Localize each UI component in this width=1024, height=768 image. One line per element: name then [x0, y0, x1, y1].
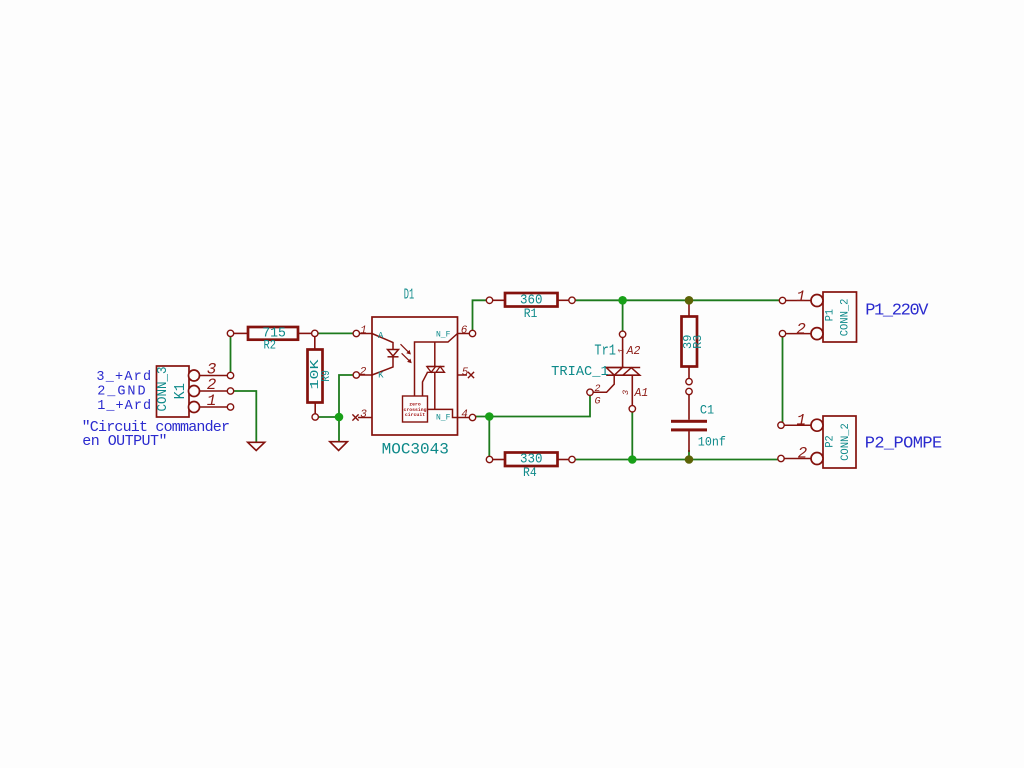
svg-text:G: G: [594, 397, 600, 408]
wire junction to ground 2: [338, 417, 340, 442]
ground GND1: [248, 442, 265, 450]
svg-text:CONN_2: CONN_2: [840, 423, 852, 461]
wire junction down to R4 left: [488, 417, 490, 460]
svg-text:N_F: N_F: [436, 331, 451, 340]
wire R9 bottom to junction: [316, 416, 340, 418]
pin end circles R4: [486, 456, 492, 462]
no-connect X pin3: [352, 414, 358, 420]
pin 3: [358, 417, 372, 419]
svg-text:1: 1: [617, 348, 627, 353]
resistor R4: [492, 452, 570, 481]
pin end circles R1: [486, 297, 492, 303]
svg-text:A2: A2: [626, 345, 641, 358]
svg-text:C1: C1: [700, 402, 714, 417]
resistor R2: [233, 326, 312, 353]
svg-text:P1_220V: P1_220V: [865, 302, 929, 321]
resistor R3: [681, 302, 705, 379]
wire top rail R1 to P1 pin1: [572, 299, 783, 301]
junction rail/R3 top: [685, 296, 694, 305]
wire P1 pin2 to P2 pin1: [782, 334, 784, 425]
svg-text:K: K: [378, 370, 384, 380]
pin end circle triac A2: [619, 331, 625, 337]
wire K1 pin2 to ground: [231, 391, 257, 442]
junction A1 / bottom rail: [628, 455, 637, 464]
inner triac: [427, 366, 445, 368]
pin 1: [359, 333, 372, 335]
no-connect X pin5: [468, 372, 474, 378]
pin end circle R3 bottom: [686, 378, 692, 384]
pin 6: [458, 333, 471, 335]
svg-text:R1: R1: [524, 306, 538, 321]
svg-text:1: 1: [796, 288, 806, 306]
svg-text:R3: R3: [691, 335, 705, 349]
wire K1 pin3 to R2 left: [230, 336, 232, 376]
svg-text:R9: R9: [319, 370, 333, 381]
LED inside D1: [372, 334, 393, 350]
wire R2 right to D1 pin1: [315, 332, 357, 334]
path to pin 4: [428, 409, 458, 417]
svg-text:D1: D1: [404, 287, 414, 304]
svg-text:Tr1: Tr1: [594, 342, 616, 359]
pin end circle R2 right / R9 top: [312, 330, 318, 336]
connector K1 CONN_3: [155, 361, 227, 418]
pin end circle R2 left: [227, 330, 233, 336]
ground GND2: [330, 442, 348, 451]
svg-text:R4: R4: [523, 465, 537, 480]
pin end circle triac G: [587, 389, 593, 395]
svg-text:10nf: 10nf: [698, 434, 726, 449]
resistor R9: [308, 335, 334, 416]
pin end circles P1: [779, 297, 785, 303]
pin 4: [458, 417, 471, 419]
svg-text:3: 3: [621, 390, 631, 395]
inner wiring: [415, 334, 458, 397]
svg-text:CONN_3: CONN_3: [155, 367, 171, 412]
connector P1 CONN_2: [785, 288, 857, 342]
wire rail down to triac A2: [622, 300, 624, 334]
junction R9 bottom / D1 pin2 / gnd: [335, 413, 344, 422]
svg-text:CONN_2: CONN_2: [840, 299, 852, 337]
svg-text:2: 2: [798, 445, 808, 463]
svg-text:P2: P2: [825, 435, 837, 447]
pin end circle C1 top: [686, 388, 692, 394]
capacitor C1: [671, 395, 726, 453]
zero crossing circuit box: [403, 396, 428, 422]
svg-text:A: A: [378, 331, 384, 341]
svg-text:MOC3043: MOC3043: [382, 440, 449, 458]
svg-text:en OUTPUT": en OUTPUT": [82, 433, 167, 450]
svg-text:4: 4: [461, 409, 468, 421]
svg-text:K1: K1: [172, 383, 189, 399]
svg-text:6: 6: [461, 325, 468, 337]
junction D1 pin4 / gate / R4: [485, 412, 494, 421]
svg-text:2: 2: [360, 366, 367, 378]
pin end circle D1 pin2: [353, 372, 359, 378]
svg-text:P1: P1: [825, 309, 837, 322]
pin 2: [359, 374, 372, 376]
resistor R1: [492, 293, 570, 322]
wire triac gate to D1 pin4: [473, 395, 591, 417]
wire triac A1 down to bottom rail: [631, 410, 633, 460]
svg-text:5: 5: [462, 367, 469, 379]
svg-text:N_F: N_F: [436, 414, 451, 423]
svg-text:crossing: crossing: [403, 407, 426, 413]
svg-text:A1: A1: [634, 387, 649, 400]
svg-text:TRIAC_1: TRIAC_1: [551, 365, 609, 380]
svg-text:1: 1: [360, 325, 367, 337]
svg-text:2: 2: [594, 384, 600, 395]
pin end circles P2: [778, 422, 784, 428]
pin end circle D1 pin4: [469, 414, 475, 420]
svg-text:R2: R2: [264, 338, 277, 353]
svg-text:1: 1: [207, 392, 217, 410]
svg-text:3: 3: [360, 409, 367, 421]
triac Tr1 TRIAC_1: [551, 338, 648, 408]
connector P2 CONN_2: [784, 412, 856, 469]
wire D1 pin6 up to R1: [473, 300, 490, 333]
wire D1 pin2 down to junction: [339, 375, 356, 417]
svg-text:2: 2: [796, 321, 806, 339]
light arrows: [401, 344, 410, 353]
svg-text:circuit: circuit: [405, 412, 425, 418]
pin end circle triac A1: [629, 406, 635, 412]
pin end circle D1 pin6: [469, 330, 475, 336]
svg-text:2_GND: 2_GND: [97, 384, 145, 399]
pin end circle D1 pin1: [353, 330, 359, 336]
wire C1 bottom to rail: [688, 450, 690, 460]
svg-text:1_+Ard: 1_+Ard: [97, 399, 151, 414]
optocoupler D1 MOC3043: [352, 287, 474, 459]
pin end circle R9 bottom: [312, 414, 318, 420]
junction rail/A2: [618, 296, 627, 305]
junction C1 / bottom rail: [685, 455, 694, 464]
pin 5: [458, 374, 468, 376]
svg-text:1: 1: [796, 412, 806, 430]
svg-text:P2_POMPE: P2_POMPE: [865, 434, 943, 453]
pin end circles K1: [227, 372, 233, 378]
wire bottom rail R4 to P2 pin2: [572, 459, 781, 461]
